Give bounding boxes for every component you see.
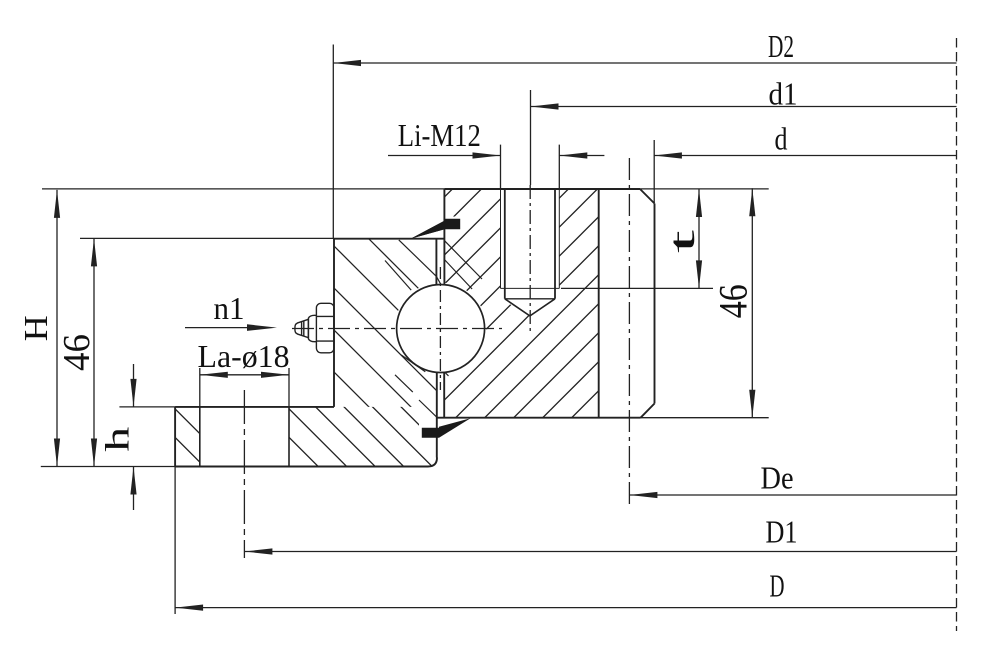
outer ring outer edge D2 bbox=[333, 239, 335, 407]
svg-text:La-ø18: La-ø18 bbox=[198, 338, 290, 374]
threaded hole Li-M12 bore (white) bbox=[501, 189, 560, 316]
dimension 46 right bbox=[711, 188, 756, 418]
svg-text:t: t bbox=[662, 230, 702, 253]
centerline of grease passage bbox=[292, 328, 502, 330]
outer ring top surface bbox=[334, 238, 444, 240]
dimension D2 bbox=[333, 28, 956, 66]
gear bottom chamfer bbox=[641, 404, 655, 418]
bottom surface extension bbox=[41, 466, 175, 468]
dimension H bbox=[18, 190, 60, 467]
threaded hole Li-M12 bbox=[501, 189, 560, 316]
dimension 46 left bbox=[56, 238, 98, 466]
ball bbox=[397, 285, 485, 373]
dimension h bbox=[100, 364, 137, 510]
bottom seal wiper (black) bbox=[422, 428, 439, 438]
extension lines bbox=[41, 45, 769, 615]
d1 extension bbox=[530, 90, 532, 185]
flange top surface bbox=[175, 406, 334, 408]
flange bottom surface with corner radius bbox=[175, 458, 437, 467]
D extension bbox=[174, 467, 176, 615]
dimension D bbox=[175, 568, 956, 611]
inner ring outline bbox=[437, 189, 655, 418]
main axis centerline bbox=[956, 38, 958, 631]
Li-M12 extensions bbox=[501, 145, 560, 189]
bolt hole La cut (white) bbox=[200, 407, 289, 466]
gear top chamfer bbox=[640, 189, 655, 204]
outer ring bore edge below ball bbox=[436, 372, 438, 457]
outer ring body hatched section bbox=[334, 239, 436, 407]
bolt hole centerline / D1 extension bbox=[243, 390, 245, 558]
inner ring bottom surface bbox=[437, 417, 641, 419]
svg-text:D1: D1 bbox=[766, 514, 798, 550]
grease nipple bbox=[295, 303, 334, 353]
thread hole centerline bbox=[529, 185, 531, 333]
svg-text:h: h bbox=[100, 427, 137, 452]
svg-text:d1: d1 bbox=[769, 76, 798, 112]
dimension Li-M12 bbox=[388, 117, 604, 159]
inner ring hatched section bbox=[444, 189, 598, 418]
inner ring left face above ball bbox=[443, 189, 445, 285]
d extension bbox=[653, 140, 655, 203]
top surface extension (H left / 46 right) bbox=[42, 188, 769, 190]
svg-text:46: 46 bbox=[711, 284, 756, 318]
svg-text:H: H bbox=[18, 315, 55, 341]
svg-text:D: D bbox=[770, 568, 785, 604]
flange step extension (h) bbox=[119, 406, 175, 408]
leader n1 bbox=[185, 290, 277, 331]
bottom seal pocket (white) bbox=[419, 418, 437, 444]
t depth extension bbox=[561, 287, 713, 289]
outer ring outline bbox=[175, 239, 444, 467]
outer ring flange hatched section bbox=[175, 407, 437, 467]
gear tip line bbox=[598, 189, 600, 418]
dimension d1 bbox=[531, 76, 957, 112]
seal groove relief bottom (white) bbox=[420, 401, 437, 418]
dimension La-ø18 bbox=[198, 338, 290, 378]
svg-text:n1: n1 bbox=[214, 290, 245, 326]
inner ring bottom extension (46 right) bbox=[641, 417, 769, 419]
La extensions bbox=[200, 368, 289, 407]
D2 extension bbox=[332, 45, 334, 239]
dimension t bbox=[662, 189, 702, 288]
svg-text:d: d bbox=[775, 121, 788, 157]
drill hole minor lines bbox=[505, 189, 555, 299]
outer ring top extension (46 left) bbox=[80, 237, 334, 239]
seal groove relief top (white) bbox=[399, 239, 437, 276]
dimension d bbox=[654, 121, 957, 159]
thread major lines bbox=[501, 189, 560, 288]
gear bore line d bbox=[654, 204, 656, 404]
dimension De bbox=[629, 460, 956, 499]
dimension D1 bbox=[244, 514, 956, 555]
svg-text:46: 46 bbox=[56, 334, 98, 371]
flange outer edge D bbox=[174, 407, 176, 467]
ball vertical centerline bbox=[439, 267, 441, 390]
top seal pocket (white) bbox=[444, 217, 462, 232]
svg-text:De: De bbox=[761, 460, 794, 496]
inner ring top surface bbox=[444, 188, 640, 190]
inner ring left face below ball bbox=[443, 372, 445, 417]
gear pitch line / De extension bbox=[628, 158, 630, 508]
ball raceway clearance (white) bbox=[395, 283, 487, 375]
drill point cone bbox=[505, 299, 555, 316]
svg-text:Li-M12: Li-M12 bbox=[398, 117, 481, 153]
outer ring bore edge above ball bbox=[435, 239, 437, 285]
svg-text:D2: D2 bbox=[768, 28, 794, 64]
bolt hole La edges bbox=[200, 407, 289, 466]
top seal wiper (black) bbox=[411, 219, 461, 239]
thread bottom bbox=[501, 287, 560, 289]
raceway shoulder lines bbox=[385, 240, 482, 418]
drill hole bottom bbox=[505, 298, 555, 300]
